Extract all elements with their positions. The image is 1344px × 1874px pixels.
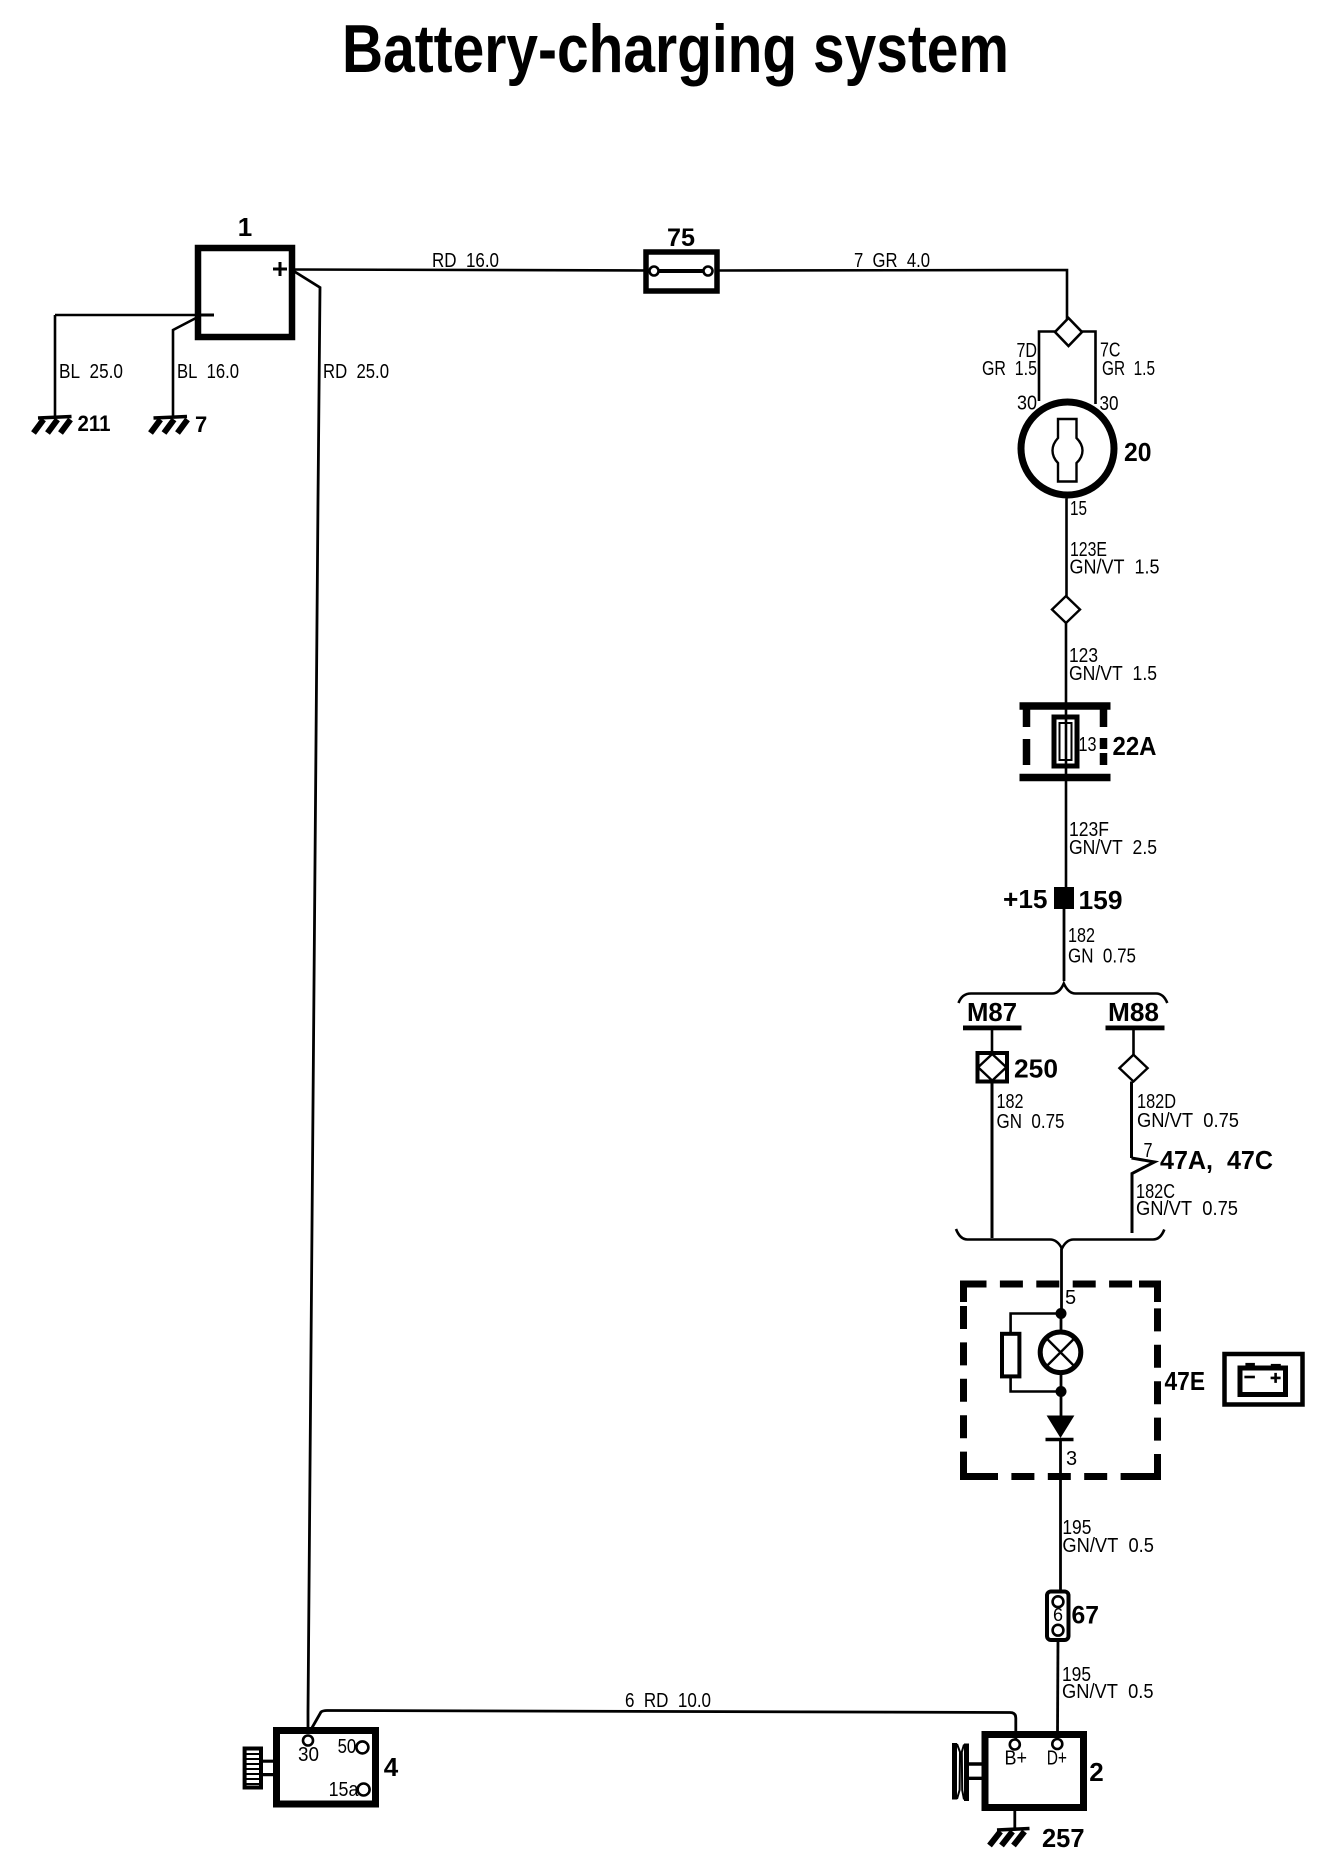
svg-text:20: 20 bbox=[1124, 437, 1152, 467]
svg-text:GN/VT 0.75: GN/VT 0.75 bbox=[1137, 1110, 1239, 1132]
svg-text:30: 30 bbox=[1017, 393, 1037, 415]
svg-text:13: 13 bbox=[1079, 734, 1097, 756]
svg-text:GN/VT 1.5: GN/VT 1.5 bbox=[1070, 557, 1160, 579]
svg-text:50: 50 bbox=[338, 1736, 357, 1758]
svg-text:GN/VT 2.5: GN/VT 2.5 bbox=[1069, 837, 1157, 859]
svg-text:7 GR 4.0: 7 GR 4.0 bbox=[854, 250, 930, 272]
svg-text:D+: D+ bbox=[1047, 1748, 1067, 1770]
svg-text:250: 250 bbox=[1014, 1054, 1058, 1084]
svg-text:30: 30 bbox=[1100, 393, 1119, 415]
svg-text:GN/VT 1.5: GN/VT 1.5 bbox=[1069, 663, 1157, 685]
svg-text:4: 4 bbox=[384, 1752, 399, 1782]
svg-text:6 RD 10.0: 6 RD 10.0 bbox=[625, 1690, 711, 1712]
svg-text:B+: B+ bbox=[1005, 1748, 1028, 1770]
svg-text:30: 30 bbox=[298, 1744, 319, 1766]
svg-text:Battery-charging system: Battery-charging system bbox=[342, 11, 1009, 87]
svg-text:BL 16.0: BL 16.0 bbox=[177, 361, 239, 383]
svg-text:1: 1 bbox=[238, 212, 252, 242]
svg-text:GR 1.5: GR 1.5 bbox=[1102, 358, 1155, 380]
svg-text:GN/VT 0.5: GN/VT 0.5 bbox=[1062, 1681, 1154, 1703]
svg-text:47E: 47E bbox=[1165, 1366, 1206, 1396]
svg-text:GR 1.5: GR 1.5 bbox=[982, 358, 1037, 380]
svg-text:159: 159 bbox=[1079, 885, 1123, 915]
svg-text:15: 15 bbox=[1070, 498, 1087, 520]
svg-text:182: 182 bbox=[1068, 925, 1095, 947]
svg-text:GN 0.75: GN 0.75 bbox=[997, 1111, 1065, 1133]
svg-text:GN/VT 0.75: GN/VT 0.75 bbox=[1136, 1198, 1238, 1220]
svg-text:BL 25.0: BL 25.0 bbox=[59, 361, 123, 383]
svg-text:RD 25.0: RD 25.0 bbox=[323, 361, 389, 383]
svg-text:75: 75 bbox=[667, 224, 695, 252]
svg-text:182: 182 bbox=[997, 1091, 1024, 1113]
svg-text:2: 2 bbox=[1089, 1757, 1103, 1787]
svg-text:22A: 22A bbox=[1113, 731, 1157, 761]
svg-text:257: 257 bbox=[1042, 1823, 1085, 1853]
svg-text:211: 211 bbox=[78, 411, 111, 436]
svg-text:+15: +15 bbox=[1003, 884, 1048, 914]
svg-text:GN/VT 0.5: GN/VT 0.5 bbox=[1062, 1535, 1154, 1557]
svg-text:3: 3 bbox=[1066, 1448, 1077, 1470]
svg-text:7: 7 bbox=[1144, 1140, 1153, 1162]
svg-text:GN 0.75: GN 0.75 bbox=[1068, 946, 1136, 968]
svg-text:RD 16.0: RD 16.0 bbox=[432, 250, 499, 272]
svg-text:5: 5 bbox=[1065, 1287, 1076, 1309]
svg-text:7: 7 bbox=[195, 412, 207, 437]
svg-text:67: 67 bbox=[1072, 1602, 1100, 1630]
svg-text:15a: 15a bbox=[329, 1779, 360, 1801]
svg-text:47A, 47C: 47A, 47C bbox=[1160, 1145, 1273, 1175]
svg-text:M88: M88 bbox=[1108, 997, 1159, 1027]
svg-text:6: 6 bbox=[1053, 1605, 1063, 1625]
svg-text:M87: M87 bbox=[967, 997, 1017, 1027]
